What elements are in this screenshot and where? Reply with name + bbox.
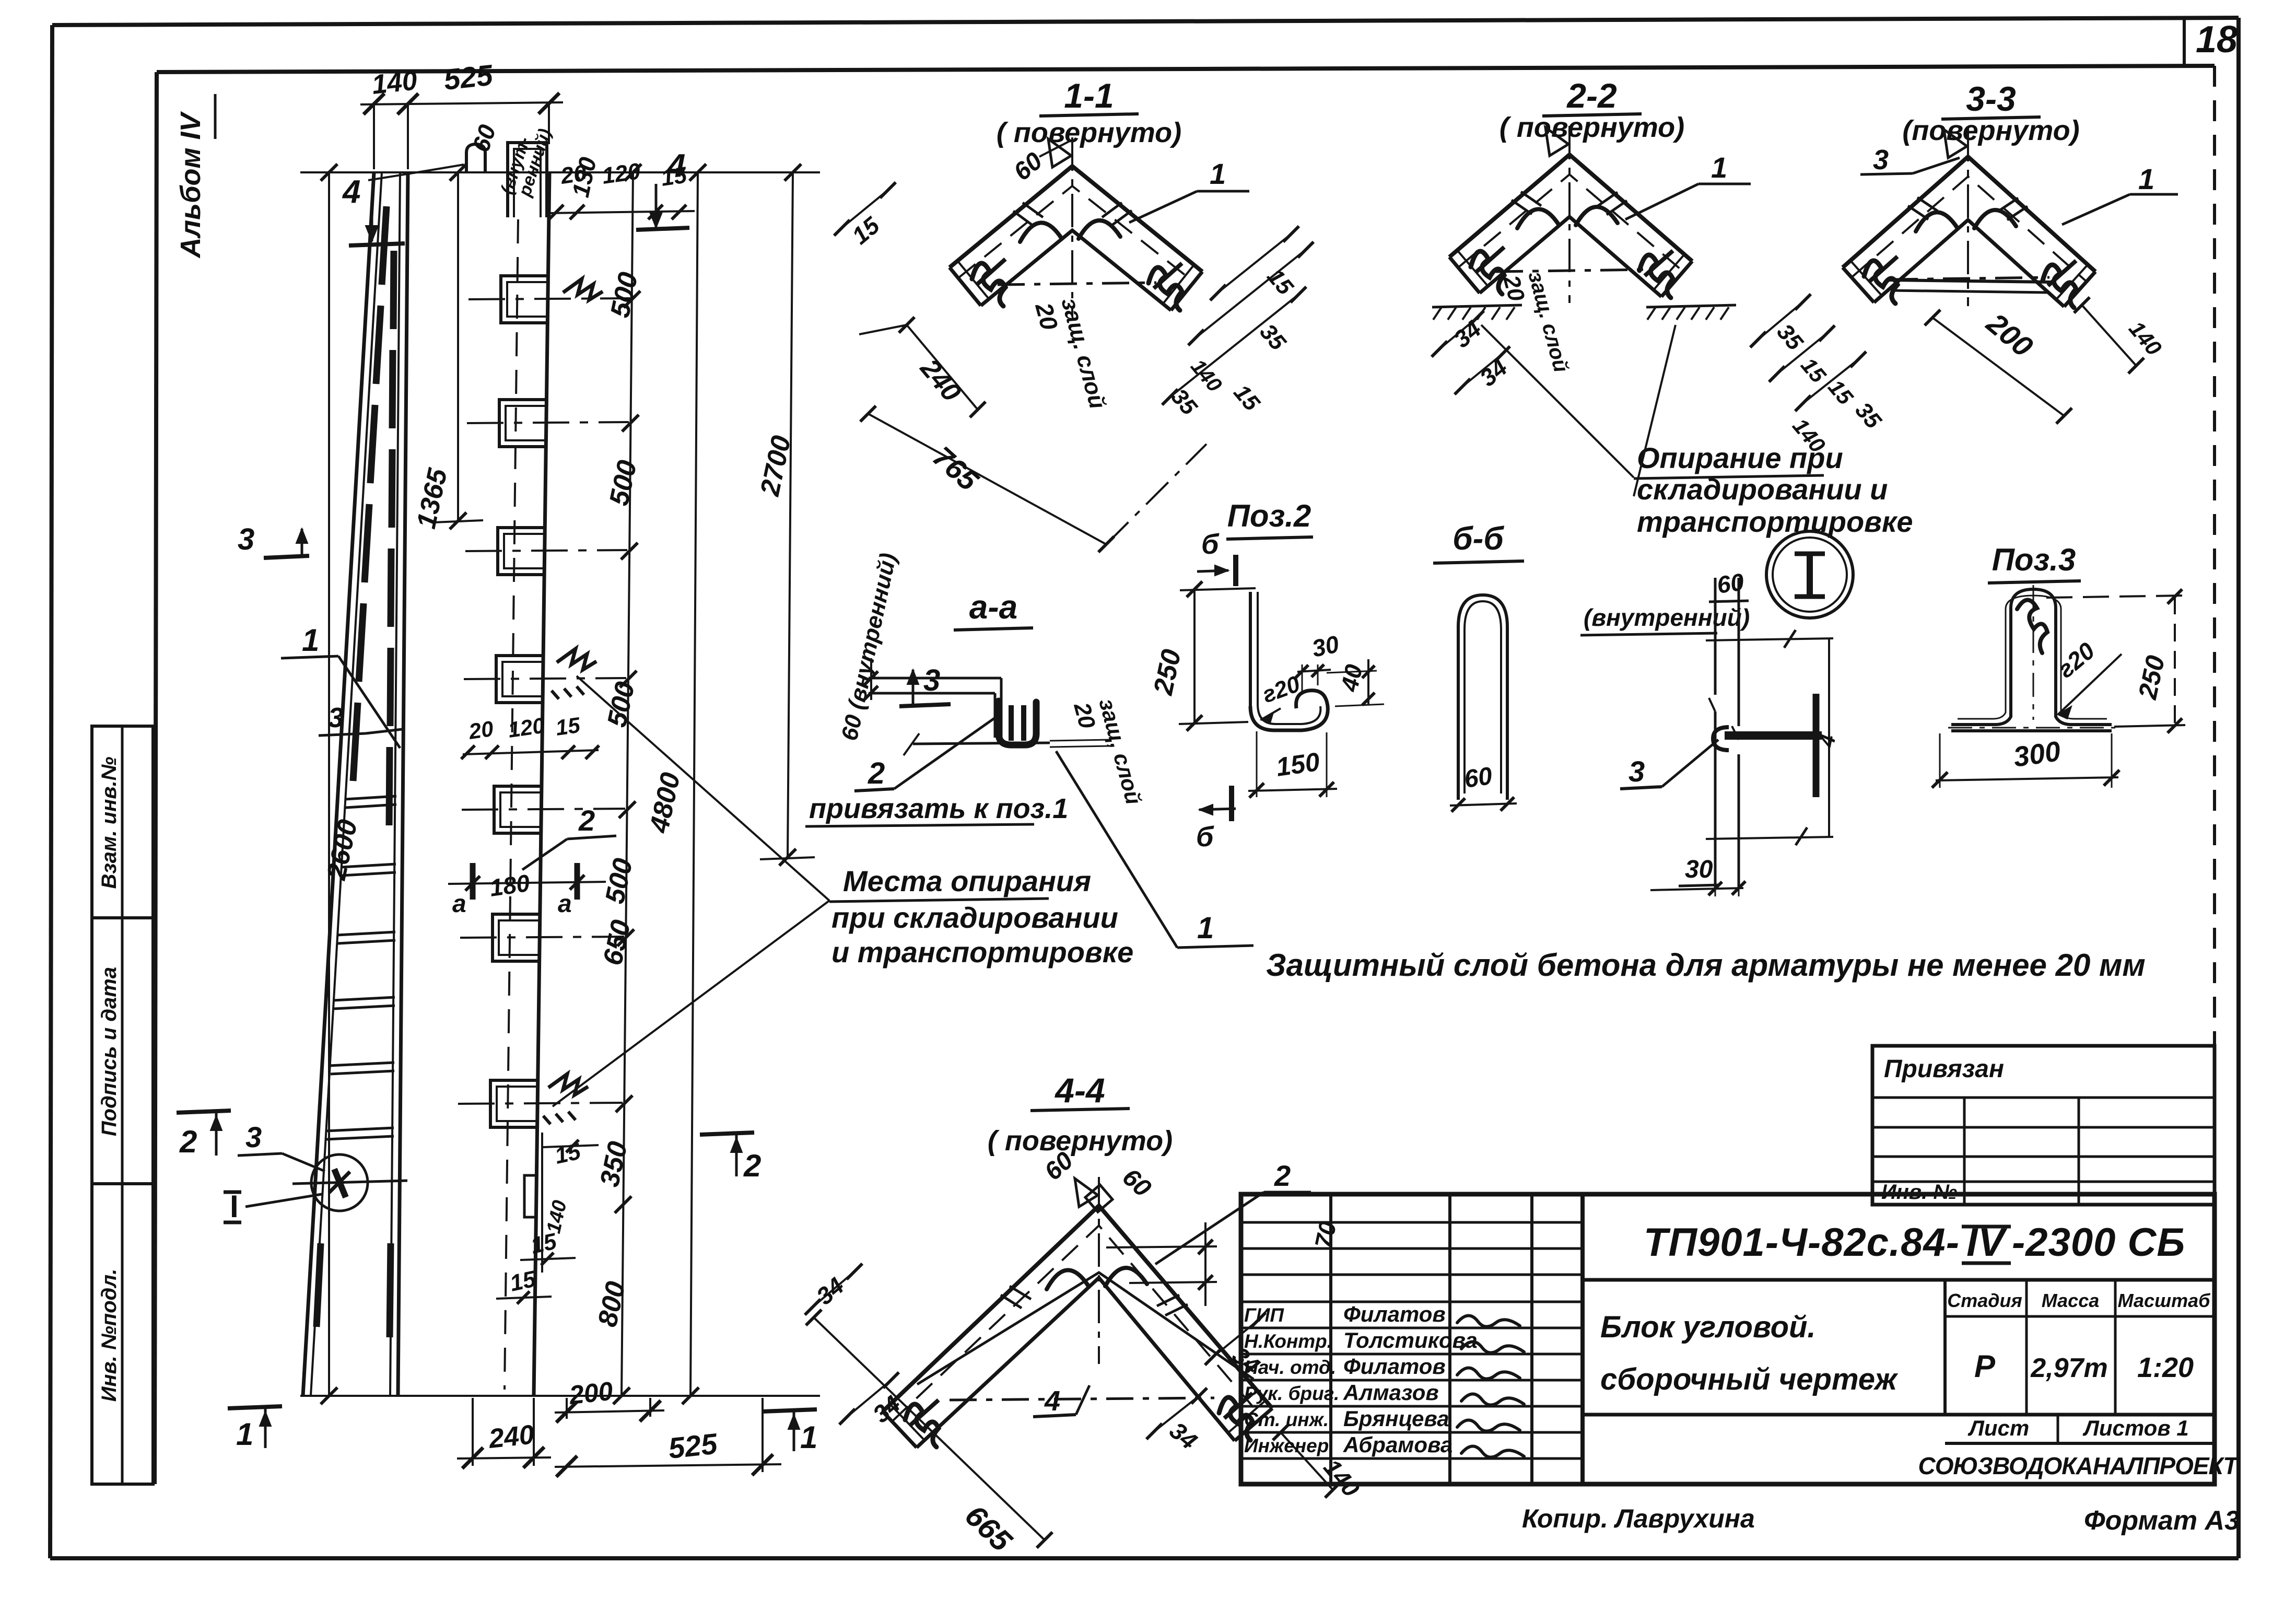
2-2 ground support hatches [1432,305,1522,307]
section a-a cut marks [470,863,476,900]
svg-text:18: 18 [2196,19,2238,61]
svg-text:2: 2 [578,804,595,837]
Поз.3 dim 250 [2174,597,2176,726]
svg-text:1: 1 [1711,151,1727,184]
svg-text:Инв. №подл.: Инв. №подл. [98,1269,121,1402]
leaders Места опирания [577,676,829,901]
svg-text:Подпись и дата: Подпись и дата [98,967,121,1136]
svg-text:Поз.3: Поз.3 [1992,542,2076,577]
внутренний vertical bar [1714,578,1717,695]
Поз.3 top squiggle [2017,600,2047,653]
а-а hook (poz.2 tie) [999,701,1036,745]
svg-text:525: 525 [667,1427,719,1465]
3-3 inner cross bar [1890,280,2052,282]
svg-text:200: 200 [567,1376,614,1410]
leader from 4 to key [368,165,464,180]
plan view right rail [398,172,408,1396]
svg-text:транспортировке: транспортировке [1637,505,1913,538]
4-4 leader 2 [1155,1192,1264,1264]
detail 2-2 centerline [1568,126,1571,303]
svg-text:180: 180 [488,869,532,902]
svg-text:Альбом IV: Альбом IV [175,111,206,259]
svg-text:2: 2 [743,1148,761,1183]
Поз.2 mark б bottom [1199,809,1236,810]
svg-text:(повернуто): (повернуто) [1902,115,2079,146]
detail 4-4 end caps [883,1411,917,1448]
svg-text:Толстикова: Толстикова [1343,1328,1478,1352]
detail 3-3 centerline [1967,128,1969,306]
bottom dims 240 200 525 [472,1398,474,1466]
лист / листов row [1583,1413,2215,1417]
detail 1-1 break tick marks [1013,211,1033,226]
left margin stamp table [92,726,153,1484]
dim line 500-series [622,172,633,1396]
leaders to supports [1481,325,1634,477]
svg-text:3-3: 3-3 [1966,79,2016,118]
svg-text:ТП901-Ч-82с.84-: ТП901-Ч-82с.84- [1644,1220,1960,1265]
detail 2-2 outer outline [1449,155,1692,261]
detail 1-1 inner outline [981,230,1171,310]
svg-text:Алмазов: Алмазов [1343,1380,1439,1405]
svg-text:3: 3 [245,1121,262,1153]
svg-text:1-1: 1-1 [1064,76,1114,115]
svg-text:1: 1 [2138,162,2154,195]
svg-text:1: 1 [1210,157,1226,190]
svg-text:Н.Контр.: Н.Контр. [1244,1331,1332,1352]
4-4 dims 34 [813,1271,854,1307]
small lower key [524,1175,537,1217]
detail 3-3 lifting loop arcs [1916,212,1958,231]
svg-text:4: 4 [1044,1385,1060,1417]
detail 4-4 centerline [1098,1177,1100,1364]
detail 2-2 lifting loop arcs [1517,209,1559,228]
Поз.2 dim 40 [1367,659,1369,705]
svg-text:ГИП: ГИП [1244,1304,1284,1326]
svg-text:3: 3 [1873,144,1889,176]
svg-text:-2300 СБ: -2300 СБ [2012,1220,2185,1265]
1-1 extension to corner [1106,444,1206,544]
svg-text:Блок угловой.: Блок угловой. [1600,1310,1816,1344]
svg-text:3: 3 [1629,755,1645,788]
svg-text:3: 3 [328,702,344,733]
svg-text:б: б [1201,529,1220,560]
svg-text:привязать к поз.1: привязать к поз.1 [809,793,1068,824]
svg-text:30: 30 [1685,856,1713,883]
Поз.2 L-bar [1249,592,1252,706]
svg-text:Брянцева: Брянцева [1343,1406,1449,1431]
signature table rows [1241,1221,1583,1224]
svg-text:Опирание при: Опирание при [1637,441,1843,474]
svg-text:1: 1 [1197,911,1214,945]
detail 1-1 end caps [950,267,981,306]
svg-text:1: 1 [302,623,319,658]
detail 4-4 lifting loop arcs [1047,1270,1088,1289]
detail 1-1 anchor squiggles [972,263,1005,306]
detail 1-1 rebar dashed lines [958,186,1194,282]
top key rectangle [508,143,547,217]
svg-text:и транспортировке: и транспортировке [831,936,1133,969]
svg-text:20: 20 [467,716,495,744]
detail 1-1 centerline [1071,137,1073,317]
внутренний horizontal rebar (section) [1725,731,1822,740]
joint detail circle I [311,1154,368,1211]
support hatch marks on teeth [563,279,603,300]
1-1 dim 240 [907,325,978,410]
4-4 dim 665 [814,1317,1045,1540]
svg-text:Р: Р [1974,1349,1996,1384]
svg-text:Привязан: Привязан [1884,1055,2004,1083]
main title block frame [1241,1194,2215,1484]
svg-text:(внутренний): (внутренний) [1584,604,1750,631]
б-б hairpin bar [1458,595,1507,800]
1-1 right dims 15 35 140 15 35 [1218,234,1291,293]
detail 4-4 section arrowhead at apex [1075,1179,1098,1207]
svg-text:120: 120 [507,713,546,742]
svg-text:( повернуто): ( повернуто) [997,117,1181,148]
svg-text:Стадия: Стадия [1947,1290,2022,1311]
внутренний dim frame [1706,638,1833,640]
svg-text:Филатов: Филатов [1343,1354,1446,1379]
2-2 leader 1 [1625,184,1698,219]
svg-text:300: 300 [2011,736,2063,773]
svg-text:40: 40 [1336,662,1368,694]
svg-text:а: а [558,890,572,918]
svg-text:а: а [452,890,466,918]
rebar marks in plan view [382,206,386,285]
upper small table Привязан [1872,1046,2215,1205]
svg-text:Рук. бриг.: Рук. бриг. [1244,1383,1339,1404]
svg-text:Филатов: Филатов [1343,1302,1446,1326]
detail 3-3 end caps [1843,267,1874,302]
left dim line 2600 [328,172,330,1396]
svg-text:2-2: 2-2 [1566,76,1617,115]
стадия масса масштаб box [1943,1280,1947,1415]
svg-text:Ст. инж.: Ст. инж. [1244,1409,1329,1430]
svg-text:Места опирания: Места опирания [843,865,1091,897]
svg-text:Абрамова: Абрамова [1343,1432,1452,1457]
top edge line of left views [300,171,820,173]
detail 1-1 outer outline [950,166,1202,272]
svg-text:120: 120 [601,158,642,189]
svg-text:при складировании: при складировании [831,901,1118,934]
svg-text:3: 3 [238,522,254,556]
bottom edge line of left views [300,1395,820,1397]
svg-text:СОЮЗВОДОКАНАЛПРОЕКТ: СОЮЗВОДОКАНАЛПРОЕКТ [1918,1452,2240,1479]
detail 4-4 inner outline [917,1278,1235,1448]
svg-text:2: 2 [1274,1159,1291,1192]
svg-text:150: 150 [1274,747,1322,782]
key profile at top [466,144,485,173]
svg-text:2: 2 [868,756,885,790]
detail 3-3 anchor squiggles [1864,261,1897,304]
doc number box [1583,1278,2215,1282]
4-4 dim 70 [1106,1246,1217,1247]
detail 3-3 inner outline [1874,220,2064,307]
detail 2-2 end caps [1449,257,1480,293]
svg-text:240: 240 [487,1419,535,1454]
svg-text:1: 1 [236,1417,253,1452]
detail 3-3 inner horizontal bar [1891,277,2049,279]
svg-text:складировании и: складировании и [1637,473,1888,506]
svg-text:Инженер: Инженер [1244,1435,1329,1456]
left dim line 1365 [457,172,459,521]
detail 1-1 inner horizontal bar [998,283,1156,285]
elevation wall edge [534,172,549,1396]
tie rungs in plan view [345,796,396,799]
inner drawing frame [157,66,2215,72]
svg-text:б: б [1196,821,1214,853]
dim line 4800 [690,172,698,1396]
2-2 dims 34 [1439,319,1476,349]
svg-text:а-а: а-а [969,588,1018,626]
1-1 dim 15 left [842,190,888,228]
svg-text:4: 4 [342,174,360,210]
Поз.2 dim 250 [1193,589,1196,723]
elevation teeth (keys) [501,276,548,323]
svg-text:2: 2 [179,1124,197,1159]
3-3 dim 140 right [2082,305,2136,366]
plan view left rail [303,172,374,1396]
svg-text:б-б: б-б [1452,521,1504,557]
detail 2-2 anchor squiggles [1471,251,1504,294]
svg-text:сборочный чертеж: сборочный чертеж [1600,1362,1899,1396]
page number box line [2183,18,2186,67]
svg-text:Формат А3: Формат А3 [2084,1506,2240,1536]
svg-text:525: 525 [442,58,495,96]
detail 4-4 inner horizontal bar [950,1398,1214,1400]
а-а bottom line [913,743,1050,744]
detail 1-1 lifting loop arcs [1020,223,1062,242]
signature table columns [1329,1194,1332,1484]
svg-text:15: 15 [660,162,689,191]
detail 4-4 anchor squiggles [905,1404,939,1447]
Поз.3 core centerline [2033,585,2034,720]
3-3 dim 200 [1932,318,2064,416]
svg-text:1: 1 [800,1420,817,1455]
3-3 left dims 35 15 15 35 [1758,302,1803,340]
detail 2-2 break tick marks [1512,200,1532,214]
svg-text:Нач. отд.: Нач. отд. [1244,1357,1336,1378]
elevation hidden face dashed [505,219,518,1390]
detail 3-3 section arrowhead at apex [1944,130,1967,158]
outer page border [52,18,2239,25]
svg-text:Копир. Лаврухина: Копир. Лаврухина [1522,1504,1755,1533]
1-1 dim 765 [868,414,1106,544]
4-4 dim 140 [1281,1432,1333,1490]
detail 4-4 outer outline [883,1206,1272,1411]
3-3 leader 3 [1913,158,1960,173]
detail 2-2 section arrowhead at apex [1545,127,1568,156]
Поз.3 T profile [1951,589,2112,725]
svg-text:I: I [230,1189,239,1224]
svg-text:60: 60 [1462,762,1494,794]
svg-text:60: 60 [1715,568,1746,599]
detail 4-4 rebar dashed lines [892,1226,1262,1421]
svg-text:4-4: 4-4 [1054,1071,1105,1110]
signatures [1457,1315,1520,1326]
3-3 leader 1 [2062,194,2130,225]
svg-text:Поз.2: Поз.2 [1227,498,1311,533]
detail 4-4 break tick marks [1001,1295,1022,1308]
svg-text:2,97т: 2,97т [2030,1353,2107,1383]
svg-text:( повернуто): ( повернуто) [988,1125,1173,1157]
4-4 inner second mesh line [917,1273,1254,1384]
svg-text:Лист: Лист [1967,1416,2029,1440]
svg-text:Листов 1: Листов 1 [2082,1416,2189,1440]
1-1 leader 1 [1129,191,1197,223]
svg-text:15: 15 [554,713,582,740]
detail 3-3 rebar dashed lines [1852,177,2087,282]
dim 140 top [373,104,375,169]
svg-text:1:20: 1:20 [2137,1352,2194,1383]
внутренний vertical T rebar [1813,694,1820,797]
svg-text:140: 140 [370,65,418,100]
node I circle [1766,531,1853,618]
dim line 2700 [788,172,793,857]
detail 2-2 rebar dashed lines [1458,174,1683,272]
а-а top bar [869,677,1001,680]
detail 2-2 inner outline [1480,217,1661,297]
detail 1-1 section arrowhead at apex [1048,139,1071,167]
svg-text:Взам. инв.№: Взам. инв.№ [98,756,121,889]
detail 3-3 break tick marks [1908,206,1928,219]
svg-text:Масштаб: Масштаб [2118,1290,2211,1311]
detail 2-2 inner horizontal bar [1496,270,1648,272]
svg-text:Защитный слой бетона для: Защитный слой бетона для арматуры не мен… [1266,948,2146,983]
svg-text:Масса: Масса [2042,1290,2100,1311]
detail 3-3 outer outline [1843,157,2095,272]
svg-text:( повернуто): ( повернуто) [1500,112,1684,143]
